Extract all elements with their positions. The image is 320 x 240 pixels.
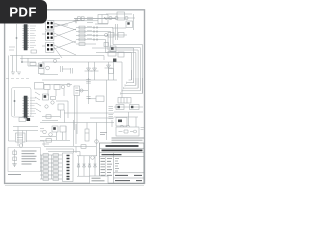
center long bus	[40, 123, 114, 157]
dark mark	[127, 22, 129, 24]
resistor R34	[130, 105, 140, 110]
wire	[12, 56, 14, 73]
wire	[114, 106, 143, 108]
wire	[42, 116, 60, 118]
left column divider	[113, 153, 115, 184]
center secondary stage cluster	[44, 83, 80, 134]
resistor R22	[53, 158, 59, 161]
rev table rows	[101, 159, 113, 176]
transistor Q10	[61, 85, 65, 89]
resistor R2	[108, 33, 114, 38]
resistor R15 diagonal	[35, 97, 40, 100]
IC U11 box	[43, 94, 49, 100]
node ticks	[94, 34, 97, 36]
capacitor C9 stack	[109, 115, 114, 119]
transistor Q9	[49, 133, 53, 137]
connector J1 pin column	[67, 156, 70, 180]
notes enclosure	[8, 148, 41, 172]
wire bus L3	[124, 78, 138, 88]
resistor R27	[43, 170, 49, 173]
reference box	[35, 83, 44, 90]
ground	[17, 72, 21, 75]
matrix row 4	[40, 166, 62, 169]
wire vertical pair	[75, 96, 78, 135]
wire	[78, 156, 80, 176]
resistor R5	[79, 26, 85, 29]
capacitor C2	[87, 19, 93, 21]
node D	[14, 100, 16, 102]
wire	[133, 14, 135, 30]
IC U16 box	[39, 69, 45, 74]
wire	[40, 74, 58, 76]
resistor R24	[53, 162, 59, 165]
resistor R35	[44, 85, 50, 90]
wire	[83, 156, 85, 176]
capacitor C11	[71, 68, 73, 74]
wire	[40, 170, 62, 172]
resistor R3	[118, 33, 124, 38]
wire	[106, 13, 132, 15]
wire	[135, 117, 137, 127]
transistor Q7	[19, 144, 23, 148]
resistor R25	[43, 166, 49, 169]
terminal bump	[48, 21, 52, 23]
varistor mark 3	[13, 164, 17, 167]
wire	[20, 57, 60, 59]
optocoupler column	[42, 21, 76, 59]
label text	[141, 128, 145, 130]
resistor R8	[79, 38, 85, 41]
top-right control cluster	[105, 12, 136, 37]
wire	[76, 43, 96, 45]
transformer T2 box	[116, 127, 139, 136]
wire	[103, 56, 105, 61]
dashed isolation line	[6, 78, 29, 80]
title row divider 2	[100, 152, 144, 154]
resistor R31	[43, 178, 49, 181]
wire	[9, 140, 16, 142]
wire	[94, 62, 96, 80]
main output section box	[39, 52, 125, 98]
node C	[21, 61, 22, 62]
winding bumps	[120, 125, 130, 127]
title row divider	[100, 147, 144, 149]
sheet border inner shadow line	[5, 185, 144, 187]
wire	[67, 101, 69, 118]
wire	[40, 178, 62, 180]
varistor RV1 box	[109, 69, 114, 74]
net label	[87, 30, 92, 32]
wire	[77, 155, 97, 157]
wire	[62, 68, 70, 70]
wire bus L2	[123, 78, 141, 91]
varistor mark 2	[13, 157, 17, 161]
wire bus M3	[48, 152, 80, 157]
wire	[64, 110, 66, 123]
opto U4	[46, 43, 54, 53]
wire	[63, 89, 65, 96]
relay K1 divider	[101, 15, 103, 24]
junction cross	[74, 18, 79, 23]
svg-text:PDF: PDF	[9, 4, 37, 19]
wire	[77, 175, 97, 177]
matrix row 6	[40, 174, 62, 177]
wire	[107, 34, 127, 36]
title block outer border	[100, 143, 144, 183]
row net 1	[76, 26, 143, 93]
resistor R30	[53, 174, 59, 177]
transistor Q4	[105, 34, 108, 37]
connector header strip top (pads row)	[78, 15, 109, 25]
dark mark	[40, 64, 43, 67]
IC U7 body	[24, 96, 27, 118]
internal circle	[134, 130, 137, 133]
wire	[42, 33, 46, 35]
resistor R29	[43, 174, 49, 177]
diode D7	[46, 139, 52, 142]
notes text lines	[22, 151, 37, 164]
dark mark	[118, 120, 122, 123]
net label	[87, 26, 92, 28]
wire	[40, 162, 62, 164]
dark mark	[131, 106, 133, 108]
title block	[100, 143, 144, 183]
IC U14 box	[60, 126, 66, 132]
wire	[42, 61, 117, 63]
transistor Q12	[51, 101, 54, 104]
resistor R7	[79, 34, 85, 37]
capacitor C1	[87, 16, 93, 18]
wire	[26, 141, 44, 146]
ground	[11, 72, 15, 75]
wire	[16, 24, 18, 72]
dark mark	[111, 47, 114, 50]
wire bus L1	[121, 78, 143, 94]
wire	[10, 55, 76, 57]
wire	[88, 78, 90, 104]
net labels beside U7	[30, 98, 36, 116]
row net 3	[76, 34, 138, 88]
bottom row divider 2	[114, 177, 144, 179]
wire bus	[64, 112, 114, 114]
wire	[117, 62, 122, 98]
wire	[114, 116, 138, 118]
node B	[113, 59, 116, 62]
wire	[40, 122, 114, 124]
row net 2	[76, 30, 140, 91]
diode D6 box	[96, 96, 104, 102]
lower-left driver cluster	[9, 118, 45, 148]
resistor R1a	[78, 17, 81, 21]
wire	[13, 126, 38, 128]
row net 4	[76, 38, 136, 85]
resistor R16 diagonal	[36, 103, 41, 106]
wire	[55, 90, 57, 97]
resistor R20	[53, 154, 59, 157]
wire	[40, 166, 62, 168]
thermistor TH1	[91, 156, 95, 160]
resistor R32	[53, 178, 59, 181]
wire	[41, 155, 43, 179]
wire	[47, 90, 49, 97]
sheet row text	[115, 180, 142, 182]
inductor L1 box	[74, 86, 80, 96]
resistor R28	[53, 170, 59, 173]
relay K1 contact mark	[104, 17, 107, 20]
wire	[76, 32, 140, 91]
dark mark	[27, 118, 31, 121]
notes block lower-left	[8, 148, 41, 175]
transistor Q8	[43, 130, 47, 134]
tiny text	[42, 143, 49, 145]
transistor Q13	[45, 105, 48, 108]
IC U8 box	[116, 118, 127, 127]
matrix row 5	[40, 170, 62, 173]
dark mark	[44, 95, 47, 98]
scale row text	[115, 174, 142, 176]
regulator subcircuit rounded box	[12, 83, 44, 119]
net label	[87, 38, 92, 40]
wire	[22, 131, 24, 147]
zener Z3	[88, 164, 91, 167]
capacitor C6 plates	[86, 80, 91, 84]
resistor R6	[79, 30, 85, 33]
bottom row divider	[114, 172, 144, 174]
wire top bus A	[74, 18, 116, 20]
filter bank bottom-center	[77, 156, 108, 184]
matrix row 2	[40, 158, 62, 161]
node A	[16, 37, 17, 38]
wire top bus B	[50, 20, 98, 22]
connector J1 shell	[63, 153, 74, 182]
resistor R4	[31, 50, 37, 53]
wire	[76, 40, 136, 86]
transistor Q3	[125, 16, 128, 19]
tiny text	[40, 129, 44, 132]
wire	[112, 27, 126, 29]
IC U7 right pins	[27, 98, 29, 116]
resistor R23	[43, 162, 49, 165]
capacitor label text	[100, 133, 107, 135]
resistor R13	[30, 63, 36, 66]
wire bus M1	[44, 147, 76, 154]
coupling caps C5	[104, 43, 109, 47]
resistor R33	[116, 105, 124, 110]
IC U13 box	[52, 126, 58, 132]
transistor Q5	[46, 66, 50, 70]
diode D4	[81, 145, 86, 149]
resistor R1b	[81, 17, 84, 21]
wire	[26, 131, 28, 143]
subtitle text	[102, 154, 122, 156]
net label	[87, 34, 92, 36]
resistor R9	[79, 43, 85, 46]
zener Z1	[77, 164, 80, 167]
terminal block TB1	[118, 98, 131, 104]
wire bus M2	[46, 149, 74, 153]
document title text	[102, 149, 143, 151]
output block text	[92, 178, 105, 181]
right-side bus staircase	[109, 69, 143, 104]
wire	[42, 22, 46, 24]
IC U9 small	[110, 46, 116, 52]
wire bus L4	[126, 78, 136, 85]
winding marks	[17, 135, 23, 140]
wire	[111, 120, 113, 127]
wire	[76, 90, 88, 92]
opto U2	[46, 21, 54, 30]
wire	[113, 62, 115, 80]
wire	[56, 132, 58, 140]
relay K1 box	[98, 15, 108, 24]
annotation paragraph right	[112, 138, 145, 142]
IC U5 box	[117, 12, 125, 20]
node ticks	[94, 30, 97, 32]
bottom resistor matrix and connector	[40, 153, 73, 182]
IC U15 box	[39, 63, 45, 68]
wire	[96, 123, 98, 157]
capacitor C3	[87, 21, 93, 23]
wire	[76, 36, 138, 89]
wire	[94, 156, 96, 176]
row net 6	[76, 56, 104, 61]
wire	[44, 84, 72, 86]
wire	[42, 45, 46, 47]
node ticks	[94, 38, 97, 40]
wire	[22, 56, 36, 63]
matrix row 7	[40, 178, 62, 181]
wire	[128, 112, 130, 126]
PDF badge	[0, 0, 47, 24]
bus terminal ticks	[121, 82, 127, 95]
resistor R26	[53, 166, 59, 169]
wire	[92, 48, 134, 83]
wire	[95, 23, 108, 25]
wire bus 2	[90, 117, 114, 119]
wire	[89, 156, 91, 176]
IC U1 right pins	[27, 26, 29, 48]
resistor R37	[51, 97, 56, 100]
IC U1 left pins	[23, 26, 25, 48]
IC U6 box	[126, 21, 133, 28]
resistor R17 diagonal	[36, 109, 41, 112]
resistor R18	[19, 118, 26, 122]
dark mark	[53, 127, 56, 130]
wire	[17, 127, 19, 147]
internal chain	[119, 130, 134, 133]
resistor R21	[43, 158, 49, 161]
wire	[13, 130, 38, 132]
wire	[56, 100, 68, 102]
company title text	[106, 145, 139, 147]
wire	[60, 110, 62, 118]
IC U10 small	[108, 52, 116, 57]
itemized list ticks	[115, 159, 119, 172]
capacitor C4 stripe	[85, 132, 89, 134]
microcontroller U1 top-left	[9, 24, 37, 72]
diode D1	[85, 68, 93, 71]
capacitor C10	[61, 66, 63, 72]
diode D8 box	[118, 52, 124, 57]
wire	[86, 123, 88, 130]
wire	[8, 56, 10, 142]
wire	[14, 90, 16, 116]
transistor Q2	[115, 16, 118, 19]
wire	[88, 98, 96, 100]
wire	[40, 136, 56, 138]
snubber network center-right	[76, 78, 113, 140]
capacitor C4 polarized	[85, 129, 89, 141]
varistor chain	[14, 149, 16, 167]
wire	[76, 28, 143, 94]
caption text under box	[8, 174, 21, 176]
zener Z4	[94, 164, 97, 167]
wire	[73, 120, 75, 146]
wire	[40, 154, 62, 156]
output block box	[90, 176, 109, 184]
wire crossover fan	[54, 21, 76, 58]
wire	[65, 126, 67, 140]
center control cluster	[42, 94, 114, 123]
left mid wiring	[6, 56, 76, 142]
wire bus L6	[129, 70, 132, 80]
transformer T2 block right	[116, 125, 145, 136]
wire	[96, 53, 132, 81]
zener Z2	[83, 164, 86, 167]
title row divider 3	[100, 156, 144, 158]
capacitor C8 stack	[109, 107, 114, 111]
wire	[105, 17, 135, 19]
fuse F1	[95, 140, 99, 144]
wire	[76, 146, 96, 148]
transistor Q11	[67, 83, 70, 86]
matrix row 1	[40, 154, 62, 157]
transistor Q1	[109, 16, 112, 19]
IC U1 body	[24, 25, 27, 51]
resistor R36	[54, 85, 60, 90]
resistor R19	[43, 154, 49, 157]
IC U12 box	[58, 104, 64, 110]
label text	[9, 47, 15, 50]
wire	[42, 120, 58, 122]
resistor R14 diagonal	[35, 92, 40, 95]
diode D5	[46, 115, 51, 118]
diode D3	[105, 65, 113, 68]
wire	[62, 132, 64, 140]
wire	[40, 158, 62, 160]
wire	[106, 80, 108, 140]
right mid component grid	[114, 105, 143, 128]
wire	[117, 24, 119, 40]
node ticks	[94, 26, 97, 28]
row net 5	[76, 43, 134, 83]
wire	[40, 140, 70, 142]
inductor winding marks	[75, 88, 78, 93]
dark mark	[118, 106, 120, 108]
subcircuit enclosure	[12, 88, 32, 118]
mid rows with series resistors	[76, 24, 143, 94]
varistor mark 1	[13, 151, 17, 155]
wire	[42, 79, 117, 81]
wire	[28, 58, 40, 66]
mid driver cluster center	[40, 126, 70, 144]
capacitor C7 plates	[86, 97, 90, 99]
wire	[40, 174, 62, 176]
rev table column divider	[105, 157, 107, 177]
wire	[51, 155, 53, 179]
wire	[115, 24, 117, 40]
wire	[88, 62, 90, 80]
